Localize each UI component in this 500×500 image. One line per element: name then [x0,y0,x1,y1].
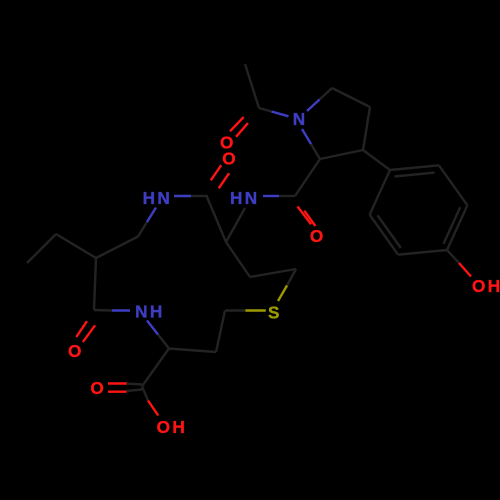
wire carboxyl C=O carbon half upper line [127,384,143,385]
wire bond phenol O to ring carbon half [447,250,459,263]
wire bond S to methyl carbon half [225,309,245,311]
wire pyrrolidine ring C-C [320,150,363,159]
wire bond alpha C to side CH2 [226,242,250,277]
wire blue half bond HN-B to C3 [263,195,279,197]
wire blue half bond N-pyrrolidine to acetyl C2 [272,112,289,117]
svg-text:S: S [268,303,279,323]
svg-text:O: O [68,341,81,361]
wire bond N(NH-bottom) to Ca-bottom carbon half [158,335,169,349]
wire blue half bond NH-bottom to Ca-bottom [147,321,158,335]
wire bond N(HN-A) to C1 carbon half [191,195,208,197]
wire blue half bond N-pyrrolidine to ring C up-right [307,100,320,112]
wire bond S to chain CH2 carbon half [287,269,296,286]
wire bond acetyl C2 to methyl CH3 [245,64,259,108]
wire bond pyrrolidine C3' to benzene [363,150,390,170]
svg-text:O: O [90,378,103,398]
svg-text:O: O [310,226,323,246]
wire olive half bond S to chain CH2 [278,286,287,302]
wire bond pyrrolidine alpha C to amide C3 [295,159,320,196]
wire blue half bond HN-A to Ca [147,208,156,223]
wire olive half bond S to methyl [245,309,265,311]
wire blue half bond N-pyrrolidine to ring C down-right [302,129,311,144]
wire bond Ca-bottom to carboxyl C [142,349,169,387]
wire blue half bond NH-bottom to carbonyl Cl [112,309,130,311]
wire pyrrolidine ring C-C [363,107,370,150]
wire blue half bond HN-A to C1 [174,195,191,197]
wire wedge bond alpha C to N(HN-B) [226,208,245,242]
wire bond Ca-bottom to CH2 right [169,349,216,353]
wire bond CH left to carbonyl Cl [94,258,96,310]
wire bond N(pyrrolidine) to ring C carbon half [320,88,333,100]
wire bond C1 to alpha C (macrocycle) [207,197,226,242]
wire bond Ca to CH left [96,237,138,259]
double bond acetyl C2=O upper oxygen, two lines [230,117,244,131]
svg-text:OH: OH [472,276,500,296]
double bond Cl=O left, two lines [76,321,87,337]
wire pyrrolidine ring C-C [332,88,370,107]
wire bond CH left to ethyl CH2 [56,234,96,258]
wire red half bond phenol OH to ring C [459,263,471,277]
wire carboxyl C=O carbon half lower line [127,390,143,392]
svg-text:OH: OH [157,417,188,437]
wire bond N(NH-bottom) to carbonyl Cl carbon half [94,309,112,312]
wire bond N(pyrrolidine) to ring alpha C carbon half [311,144,320,159]
wire bond carboxyl OH to C carbon half [142,386,148,400]
svg-text:O: O [222,149,235,169]
benzene ring edges [390,165,439,170]
wire bond N(pyrrolidine) to acetyl C2 carbon half [259,108,272,112]
svg-text:HN: HN [143,188,173,208]
wire bond side CH2 to S-chain CH2 [250,269,296,277]
double bond C1=O lower oxygen, two lines [211,165,221,180]
wire bond CH2 right to S-methylene [216,311,225,353]
wire bond ethyl CH2 to CH3 [27,234,56,263]
svg-text:HN: HN [230,188,260,208]
double bond carboxyl C=O, two lines [108,382,127,384]
svg-text:NH: NH [135,302,165,322]
double bond C3=O3, two lines [298,207,312,225]
wire red half bond carboxyl OH to C [148,401,158,416]
wire bond N(HN-B) to C3 carbon half [279,195,295,197]
svg-text:N: N [293,109,305,129]
wire bond N(HN-A) to Ca carbon half [138,222,147,237]
benzene inner aromatic double-bond lines [395,173,435,177]
